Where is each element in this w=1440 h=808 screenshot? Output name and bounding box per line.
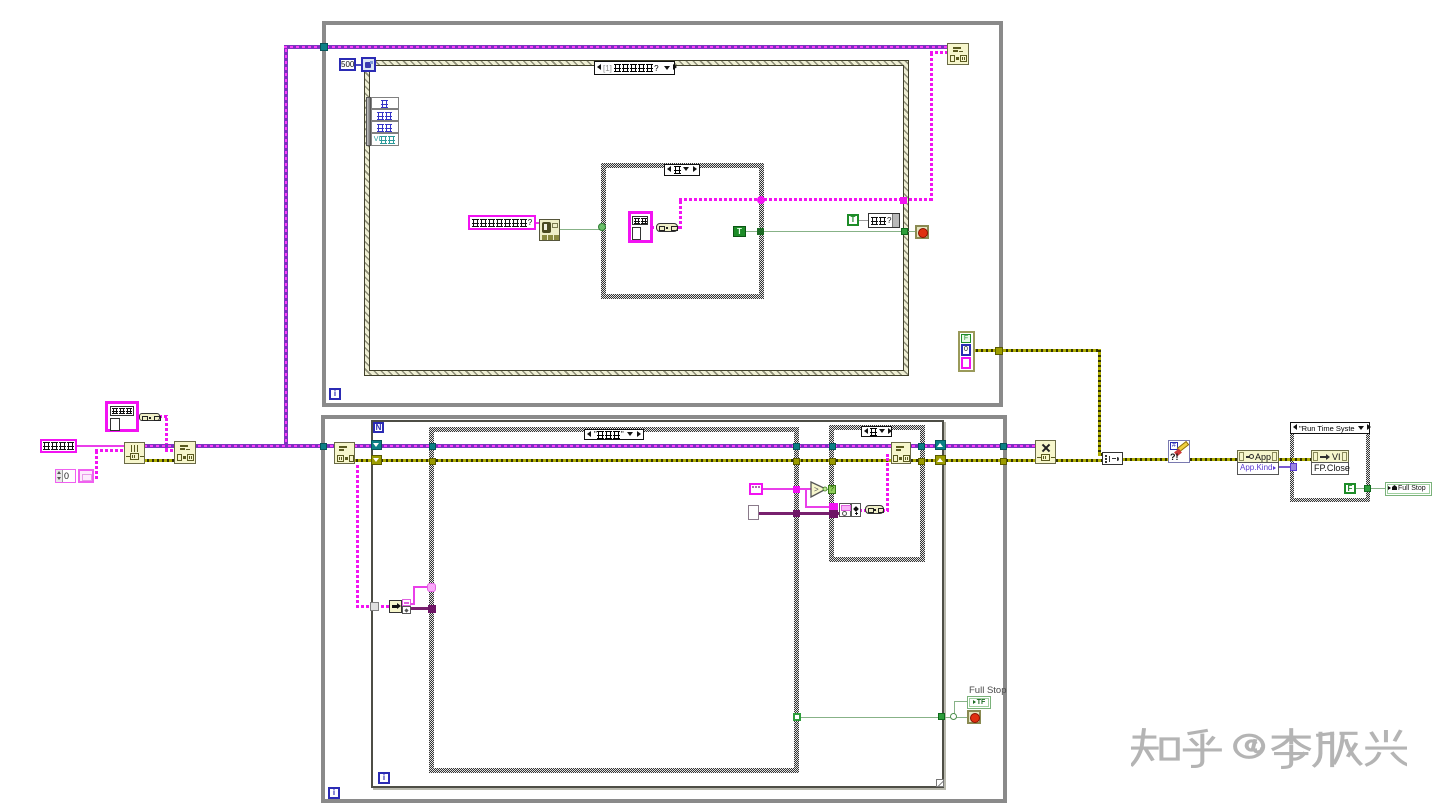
wire: branch up to Full Stop [954,701,955,716]
shift register left teal [371,440,382,450]
wire: riser into enqueue node [886,454,894,457]
node: enqueue element [891,442,911,464]
tunnel: green on event right border [901,228,908,235]
junction: magenta dot on true case border [757,196,765,204]
control: command sequence string [40,439,77,453]
wire: error cluster drop [1098,349,1101,455]
tunnel: green runtime case right [1364,485,1371,492]
node: two button dialog [539,219,560,241]
wire: main error run y=459 [338,459,1104,462]
tunnel: gray variant on for loop border [370,602,379,611]
wire: enum branch drop [805,488,807,508]
tunnel: green for loop right [938,713,945,720]
terminal: while top i [329,388,341,400]
while loop bottom [321,415,1007,803]
label: runtime case selector [1290,422,1370,434]
event data node spine [366,97,371,146]
wire: dialog output green [559,229,603,230]
wire: exit terminal to pill [651,226,682,229]
hu [1185,731,1220,767]
at [1235,735,1263,757]
wire: dequeue element drop [356,464,359,608]
node: merge errors [1102,452,1123,465]
terminal: exit button [628,211,653,243]
node: dequeue element [334,442,355,464]
control: numeric 0 [55,469,76,483]
tunnel: pink rounded init left [427,583,436,592]
WATERMARK zhihu @liyinxing [1131,726,1407,772]
constant: F false (runtime) [1344,483,1356,494]
wire: init drop to register [165,415,168,451]
wire: variant data maroon [408,607,431,610]
label: false case selector [861,426,892,437]
tunnel: green case init right bottom [793,713,801,721]
event structure frame [364,60,909,376]
wire: error cluster const run [973,349,1101,352]
junction: magenta square on event border [900,197,907,204]
wire: vertical from unregister down to exit wire [930,51,933,201]
for loop [371,420,944,788]
wire: greater out to selector [826,489,831,490]
node: cluster icon concat [851,503,861,517]
wire: command string to obtain queue [76,445,126,447]
node: VI invoke [1311,450,1349,475]
label: discard? box [868,213,900,228]
wire: F to Full Stop tunnel [1354,488,1386,489]
constant: enum [749,483,763,495]
wire: error cluster into merge [1098,453,1106,456]
label: init case selector [584,429,644,440]
for loop resize grip [936,779,944,787]
case RunTime frame [1290,422,1370,502]
constant: error cluster (F,0) [958,331,975,372]
node: pill converter (false case) [865,505,884,514]
wire: error run merge to App/VI [1122,458,1314,461]
wire: variant node into case tunnel [413,586,431,588]
case INIT frame [429,427,799,773]
tunnel: false case right olive [918,458,925,465]
tunnel: false case left teal [829,443,836,450]
li [1274,730,1309,768]
wire: numeric 0 to obtain queue [95,449,126,452]
case FALSE interior [834,430,920,557]
node: cluster icon pink [839,503,851,517]
case FALSE frame [829,425,925,562]
wire: event reg refnum vertical riser [284,45,288,448]
terminal: for loop i [378,772,390,784]
wire: event reg refnum top run [284,45,950,49]
wire: init into register node [165,449,176,452]
node: pill converter (init) [139,413,160,421]
tunnel: init case right olive [793,458,800,465]
tunnel: init case right teal [793,443,800,450]
node: obtain queue [124,442,145,464]
tunnel: false case left olive [829,458,836,465]
junction: magenta squares init right [793,486,800,493]
svg-text:>: > [814,485,819,494]
terminal: numeric icon [78,469,94,483]
wire: vertical inside true case [679,198,682,229]
tunnel: maroon init left [428,605,436,613]
wire: dequeue element to variant node [356,605,391,608]
wire: numeric 0 stub [91,476,98,479]
label: true case selector [664,164,700,176]
tunnel: bottom loop left teal [320,443,327,450]
terminal: event timeout (clock) [361,57,376,72]
selector terminal: green ? false case [828,485,836,494]
node: unregister for events [947,43,969,65]
tunnel: init case left teal [429,443,436,450]
wire: bottom green run to stop [800,717,970,718]
shift register right olive [935,455,946,465]
wire: enum to greater node [761,488,814,490]
wire: riser to enqueue [886,454,889,511]
tunnel: maroon init right [793,510,800,517]
shift register left olive [371,455,382,465]
wire: error stub obtain-register [144,459,176,462]
tunnel: dark green true case right [757,228,764,235]
while loop top [322,21,1003,407]
wire: 500 to timeout [355,64,362,66]
constant: empty string [748,505,759,520]
junction: magenta false left [829,503,838,512]
junction: green dot [950,713,957,720]
case TRUE interior [606,168,759,294]
for loop interior [373,422,942,786]
wire: cluster to pill [859,509,867,512]
terminal: loop stop (bottom) [967,710,981,724]
node: greater than zero triangle [810,481,829,498]
wire: enum branch into false case [805,506,835,508]
constant: confirm exit string [468,215,536,230]
node: simple error handler [1168,440,1190,463]
wire: main queue/event refnum run y=444 [144,444,1040,448]
wire: variant node top out stub [408,603,415,605]
event structure interior [369,65,904,371]
label: Full Stop [969,685,1009,695]
constant: 500 [339,58,356,71]
node: App property [1237,450,1279,475]
xing [1367,732,1407,765]
tunnel: false case right teal [918,443,925,450]
indicator: Full Stop [967,696,991,709]
tunnel: bottom loop right teal [1000,443,1007,450]
terminal: loop stop (top) [915,225,929,239]
label: event structure selector [594,61,675,75]
event data node rows [371,97,399,109]
tunnel: maroon false left [829,510,838,518]
wire: branch to Full Stop indicator [954,701,970,702]
node: register for events [174,441,196,464]
wire: string maroon run [758,512,842,515]
indicator: Full Stop (runtime) [1385,482,1432,496]
tunnel: green circle true case left [598,223,606,231]
terminal: init button [105,401,139,432]
node: variant to data [389,600,402,613]
wire: pill out stub [882,509,889,512]
shift register right teal [935,440,946,450]
tunnel: top loop left (event reg) [320,43,328,51]
tunnel: top loop right olive junction [995,347,1003,355]
wire: unregister second input stub [930,51,949,54]
constant: T true (in case) [733,226,746,237]
wire: T const to stop terminal green [744,231,920,232]
case RunTime interior [1294,426,1366,498]
node: pill converter (exit) [656,223,678,232]
zhi [1132,730,1178,765]
node: release queue [1035,440,1056,464]
case INIT interior [434,432,794,768]
wire: init pill stub [159,415,168,418]
wire: T to discard box [859,220,868,221]
selector terminal: violet runtime case [1290,463,1297,471]
tunnel: init case left olive [429,458,436,465]
terminal: while bottom i [328,787,340,799]
xin [1315,733,1361,765]
label: for loop N [373,422,384,433]
case structure TRUE frame [601,163,764,299]
wire: App.Kind selector violet [1279,466,1292,468]
wire: numeric 0 riser [95,449,98,479]
wire: exit boolean run y=198 [679,198,933,201]
wire: variant node riser [413,586,415,605]
wire: string to dialog [533,222,541,224]
tunnel: bottom loop right olive [1000,458,1007,465]
constant: T (discard) [847,214,859,226]
